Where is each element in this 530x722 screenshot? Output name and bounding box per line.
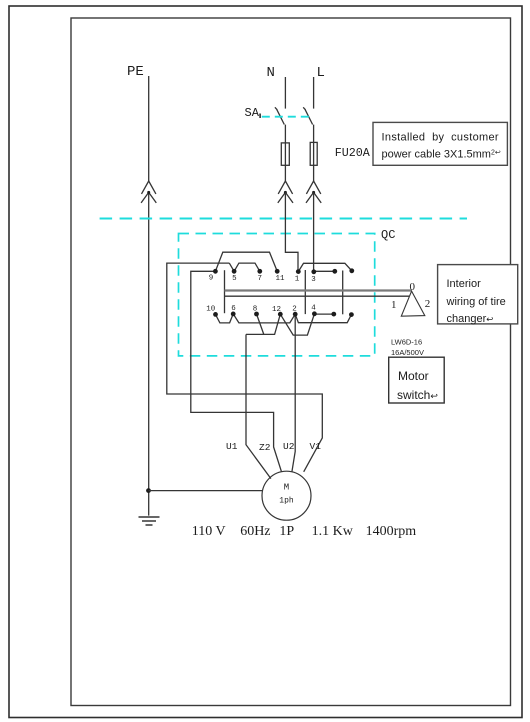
pedal switch triangle [401, 291, 425, 316]
terminal numbers top row [209, 275, 317, 285]
svg-text:LW6D-16: LW6D-16 [391, 338, 422, 347]
svg-text:110 V: 110 V [192, 524, 226, 539]
wire PE vertical [148, 76, 150, 516]
svg-text:1: 1 [295, 276, 300, 284]
svg-text:power cable 3X1.5mm2↩: power cable 3X1.5mm2↩ [382, 149, 501, 161]
node N label [267, 65, 275, 81]
wire N upper [284, 77, 286, 109]
terminal numbers bottom row [206, 305, 316, 315]
wire from terminal 9 to left and down to Z2 column [191, 271, 282, 472]
switch QC enclosure (cyan dashed box) [179, 234, 375, 356]
motor terminal label U2 [283, 441, 295, 452]
jumper 5-7 [229, 263, 259, 271]
svg-text:Installed by customer: Installed by customer [382, 132, 499, 144]
svg-text:SA: SA [245, 106, 260, 120]
svg-text:60Hz: 60Hz [240, 524, 270, 539]
connector X2 N (plug-socket) [278, 181, 293, 203]
switch pole bridge left [224, 270, 226, 313]
switch SA pole N (blade) [275, 107, 284, 124]
motor M 1ph [262, 471, 311, 520]
svg-text:11: 11 [275, 275, 285, 283]
wire L upper [313, 77, 315, 109]
jumper 9-11 [215, 252, 277, 271]
svg-text:1: 1 [391, 299, 397, 311]
jumper 12-4 [280, 314, 314, 335]
motor terminal label V1 [310, 441, 322, 452]
note box: installed by customer [373, 122, 507, 165]
pedal terminal 0 label [410, 281, 416, 293]
svg-text:1P: 1P [279, 524, 294, 539]
jumper 2-to-right-terminal [295, 314, 351, 323]
wire terminal 2 down to motor U2 [292, 314, 295, 472]
pedal terminal 2 label [425, 298, 431, 310]
svg-text:16A/500V: 16A/500V [391, 348, 424, 357]
svg-text:1.1 Kw: 1.1 Kw [312, 524, 354, 539]
svg-text:3: 3 [311, 276, 316, 284]
switch SA pole L (blade) [303, 107, 312, 124]
bus wire 0 (to pedal apex) [225, 289, 412, 291]
fuse label FU20A [335, 146, 371, 160]
jumper 6-2 [233, 314, 295, 323]
pedal terminal 1 label [391, 299, 397, 311]
svg-text:wiring of tire: wiring of tire [446, 296, 506, 308]
svg-text:changer↩: changer↩ [447, 313, 495, 325]
switch SA label [245, 106, 261, 120]
boundary line customer/interior (cyan dashed) [100, 218, 467, 220]
svg-text:2: 2 [425, 298, 431, 310]
svg-text:0: 0 [410, 281, 416, 293]
connector X1 PE (plug-socket) [141, 181, 156, 203]
svg-text:7: 7 [258, 275, 263, 283]
switch QC label [381, 228, 395, 242]
connector X3 L (plug-socket) [306, 181, 321, 203]
terminal dots bottom row [213, 311, 354, 317]
motor switch model label LW6D-16 16A/500V [391, 338, 424, 358]
svg-text:switch↩: switch↩ [397, 388, 438, 402]
wire L connector-to-terminal 3 [313, 192, 315, 272]
svg-text:U2: U2 [283, 441, 295, 452]
inner drawing frame [71, 18, 511, 706]
wire tap to motor U1 [246, 334, 271, 478]
svg-text:FU20A: FU20A [335, 146, 371, 160]
wire N switch-to-fuse [284, 125, 286, 181]
node PE label [127, 64, 144, 80]
svg-text:1400rpm: 1400rpm [366, 524, 417, 539]
svg-text:PE: PE [127, 64, 144, 80]
svg-text:Z2: Z2 [259, 442, 271, 453]
svg-text:U1: U1 [226, 441, 238, 452]
svg-text:Motor: Motor [398, 369, 429, 383]
svg-text:V1: V1 [310, 441, 322, 452]
bus wire 1 (to pedal side) [225, 295, 410, 297]
wire N connector-to-QC with jog to terminal 1 [285, 192, 298, 271]
motor rating caption [192, 524, 416, 539]
wire PE to motor frame [149, 490, 263, 492]
svg-text:10: 10 [206, 306, 216, 314]
svg-text:9: 9 [209, 275, 214, 283]
node L label [317, 65, 325, 81]
switch pole bridge right [342, 271, 344, 315]
svg-text:M: M [284, 483, 289, 493]
motor terminal label Z2 [259, 442, 271, 453]
svg-text:1ph: 1ph [279, 497, 294, 506]
motor terminal label U1 [226, 441, 238, 452]
jumper 1-to-right-terminal [298, 263, 352, 271]
svg-text:2: 2 [292, 306, 297, 314]
note box: motor switch [389, 357, 445, 403]
fuse FU (N pole) [281, 143, 289, 165]
note box: interior wiring of tire changer [438, 265, 518, 325]
svg-text:8: 8 [253, 306, 258, 314]
svg-text:Interior: Interior [447, 278, 482, 290]
jumper 3-to-right-terminal [314, 270, 335, 272]
jumper 4-to-right-terminal [314, 313, 333, 315]
svg-text:6: 6 [231, 305, 236, 313]
svg-text:4: 4 [311, 305, 316, 313]
jumper 10-6 [216, 314, 234, 323]
fuse FU (L pole) [310, 142, 317, 165]
svg-text:QC: QC [381, 228, 395, 242]
wire from terminal 5 to left and down to V1 column [167, 263, 322, 472]
switch SA mechanical link (cyan dashed) [262, 116, 310, 118]
switch pole bridge middle [304, 270, 306, 314]
ground symbol [139, 517, 160, 525]
svg-text:L: L [317, 65, 325, 81]
wire L switch-to-fuse [313, 125, 315, 181]
ground junction dot [146, 488, 151, 493]
svg-text:12: 12 [272, 306, 281, 314]
svg-text:N: N [267, 65, 275, 81]
svg-text:5: 5 [232, 275, 237, 283]
jumper 8-12 with tap to U1 [246, 314, 280, 334]
terminal dots top row [213, 268, 354, 274]
